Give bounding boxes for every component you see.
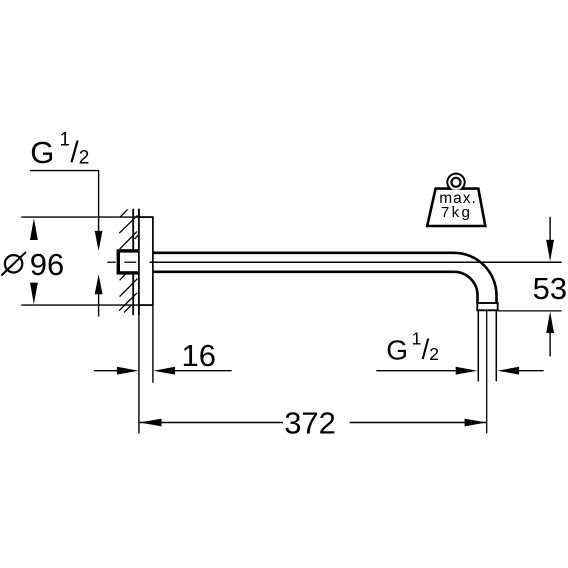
leader arrowhead down	[95, 231, 103, 251]
outlet G1/2 dim right arrow	[498, 367, 520, 375]
16 dimension right arrow	[154, 367, 176, 375]
wall hatching	[119, 210, 139, 313]
label Ø96	[1, 252, 26, 275]
shower arm bottom edge	[153, 270, 454, 273]
outlet pipe right edge	[495, 311, 497, 382]
53 top arrow	[549, 217, 551, 241]
372 left extension line (wall)	[138, 315, 140, 433]
16 right extension line	[152, 306, 154, 383]
svg-text:7kg: 7kg	[441, 204, 472, 221]
wall line left	[132, 209, 134, 315]
svg-text:96: 96	[30, 247, 64, 282]
dimension Ø96 arrows	[30, 218, 38, 304]
53 bottom arrow	[546, 312, 554, 334]
elbow inner curve	[454, 272, 478, 303]
372 dimension line left	[140, 422, 283, 424]
wall flange escutcheon	[139, 217, 153, 305]
svg-text:2: 2	[79, 148, 90, 169]
leader line G1/2 left	[30, 171, 99, 232]
outlet center extension line	[486, 311, 488, 434]
svg-text:G: G	[386, 335, 408, 366]
svg-text:1: 1	[60, 129, 71, 150]
53 bottom extension line	[498, 310, 562, 312]
svg-text:53: 53	[533, 271, 567, 306]
threaded inlet connector	[118, 251, 140, 273]
max weight icon body	[427, 189, 485, 226]
svg-text:G: G	[30, 135, 54, 170]
extension line bottom (flange dia)	[21, 304, 152, 306]
16 dimension left arrow	[94, 370, 117, 372]
center axis line / 53 top extension	[150, 261, 562, 263]
wall line right	[138, 209, 140, 315]
372 dimension line right	[350, 422, 487, 424]
svg-text:16: 16	[182, 338, 216, 373]
svg-text:372: 372	[284, 405, 336, 440]
centerline dashes at inlet	[107, 261, 136, 263]
elbow outer curve	[454, 253, 497, 303]
shower arm top edge	[153, 252, 454, 255]
svg-text:1: 1	[412, 329, 422, 349]
outlet end fitting band	[477, 303, 497, 310]
extension line top (flange dia)	[21, 216, 152, 218]
svg-text:2: 2	[429, 344, 439, 364]
thread dim arrow up	[95, 274, 103, 294]
outlet pipe left edge	[477, 311, 479, 382]
outlet G1/2 dim left arrow	[376, 370, 456, 372]
